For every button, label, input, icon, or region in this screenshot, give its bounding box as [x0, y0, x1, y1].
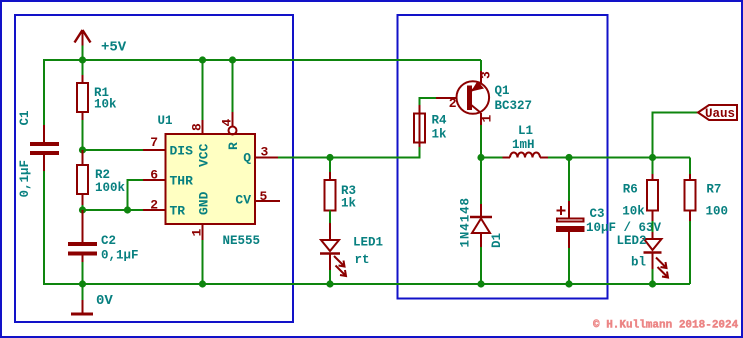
node junction LED1 / 0V rail	[326, 280, 333, 287]
resistor R3	[325, 158, 336, 224]
node junction LED2 / 0V rail	[649, 280, 656, 287]
node junction C2 / 0V rail	[79, 280, 86, 287]
LED2 diode	[644, 232, 669, 284]
node junction Q wire / R3	[326, 154, 333, 161]
resistor R6	[647, 158, 658, 233]
node junction rail / pin4	[229, 56, 236, 63]
svg-text:1k: 1k	[341, 197, 357, 211]
node junction GND / 0V rail	[199, 280, 206, 287]
svg-text:Uaus: Uaus	[705, 107, 735, 121]
svg-text:CV: CV	[235, 193, 251, 208]
svg-text:1k: 1k	[432, 128, 448, 142]
svg-text:100k: 100k	[95, 181, 126, 195]
wire DIS pin7	[83, 149, 144, 151]
svg-text:10k: 10k	[94, 98, 117, 112]
left dashed-area box (oscillator section)	[15, 15, 293, 322]
svg-text:U1: U1	[158, 114, 173, 128]
svg-text:GND: GND	[197, 191, 212, 215]
svg-text:R7: R7	[706, 183, 721, 197]
diode D1 1N4148	[470, 158, 492, 285]
svg-text:bl: bl	[631, 256, 646, 270]
svg-text:DIS: DIS	[170, 144, 194, 159]
svg-text:3: 3	[261, 145, 269, 160]
svg-text:8: 8	[190, 123, 205, 131]
svg-text:0,1µF: 0,1µF	[18, 160, 32, 198]
pin 5 CV lead	[255, 200, 280, 202]
pin 3 Q lead	[255, 157, 278, 159]
LED1 diode	[320, 223, 346, 284]
svg-text:6: 6	[150, 168, 158, 183]
svg-text:L1: L1	[518, 124, 533, 138]
svg-text:10k: 10k	[622, 205, 645, 219]
wire TR pin2	[83, 209, 144, 211]
node junction rail / pin8	[199, 56, 206, 63]
transistor Q1 BC327	[436, 60, 489, 158]
svg-text:rt: rt	[355, 253, 370, 267]
svg-text:1N4148: 1N4148	[459, 197, 473, 247]
node junction R1/R2/DIS	[79, 146, 86, 153]
svg-text:R: R	[226, 142, 241, 150]
node junction collector / D1 / L1	[477, 154, 484, 161]
svg-text:C3: C3	[590, 207, 605, 221]
op... IC U1 NE555 body	[166, 134, 256, 224]
svg-text:2: 2	[150, 198, 158, 213]
svg-text:100: 100	[706, 205, 729, 219]
pin 7 DIS lead	[143, 149, 166, 151]
resistor R2	[77, 150, 88, 210]
pin 6 THR lead	[143, 179, 166, 181]
capacitor C3 (electrolytic)	[556, 158, 585, 285]
svg-text:TR: TR	[170, 204, 186, 219]
svg-text:3: 3	[479, 71, 494, 79]
svg-text:0V: 0V	[96, 293, 113, 309]
svg-text:+5V: +5V	[101, 40, 127, 56]
svg-text:© H.Kullmann 2018-2024: © H.Kullmann 2018-2024	[593, 320, 739, 332]
node junction D1 / 0V rail	[477, 280, 484, 287]
node junction TR/THR branch	[124, 206, 131, 213]
svg-text:C2: C2	[101, 234, 116, 248]
node junction +5V rail / R1	[79, 56, 86, 63]
svg-text:C1: C1	[18, 110, 32, 125]
resistor R7	[685, 158, 696, 285]
capacitor C1	[30, 125, 59, 171]
svg-text:4: 4	[220, 119, 235, 127]
wire +5V top rail	[44, 60, 481, 125]
wire THR branch to pin6	[128, 180, 144, 210]
svg-text:Q1: Q1	[495, 84, 510, 98]
pin 1 GND lead	[202, 224, 204, 284]
svg-text:10µF / 63V: 10µF / 63V	[586, 221, 662, 235]
svg-text:1: 1	[190, 229, 205, 237]
svg-text:R6: R6	[623, 183, 638, 197]
node junction R2/C2/TR	[79, 206, 86, 213]
ground symbol 0V	[71, 284, 93, 314]
svg-text:LED2: LED2	[617, 234, 647, 248]
svg-text:2: 2	[449, 96, 457, 111]
right dashed-area box (driver section)	[398, 15, 608, 299]
wire Q output to R4	[278, 147, 420, 158]
capacitor C2	[68, 210, 97, 284]
node junction C3 / 0V rail	[565, 280, 572, 287]
power symbol +5V arrow	[75, 30, 91, 59]
pin 2 TR lead	[143, 209, 166, 211]
wire L1 to output node	[548, 157, 690, 159]
svg-text:1mH: 1mH	[512, 138, 535, 152]
svg-text:THR: THR	[170, 174, 194, 189]
svg-text:R4: R4	[432, 114, 448, 128]
pin 8 VCC lead	[202, 60, 204, 134]
svg-text:BC327: BC327	[495, 99, 533, 113]
inductor L1	[503, 153, 549, 158]
svg-text:Q: Q	[243, 151, 251, 166]
pin 4 R lead with inversion bubble	[229, 60, 237, 135]
svg-text:NE555: NE555	[223, 234, 261, 248]
svg-text:LED1: LED1	[353, 236, 383, 250]
resistor R1	[77, 60, 88, 150]
wire output node up to Uaus flag	[653, 113, 699, 158]
svg-text:VCC: VCC	[197, 143, 212, 167]
svg-text:D1: D1	[490, 233, 504, 248]
resistor R4	[414, 98, 436, 147]
node junction L1 / C3	[565, 154, 572, 161]
net flag Uaus	[698, 105, 737, 121]
svg-text:1: 1	[480, 115, 495, 123]
svg-text:R2: R2	[95, 168, 110, 182]
svg-text:5: 5	[260, 189, 268, 204]
wire C1 bottom to 0V rail	[44, 171, 690, 284]
node junction output / R6 / Uaus	[649, 154, 656, 161]
svg-text:7: 7	[150, 135, 158, 150]
wire collector node to L1	[481, 157, 503, 159]
svg-text:0,1µF: 0,1µF	[101, 249, 139, 263]
